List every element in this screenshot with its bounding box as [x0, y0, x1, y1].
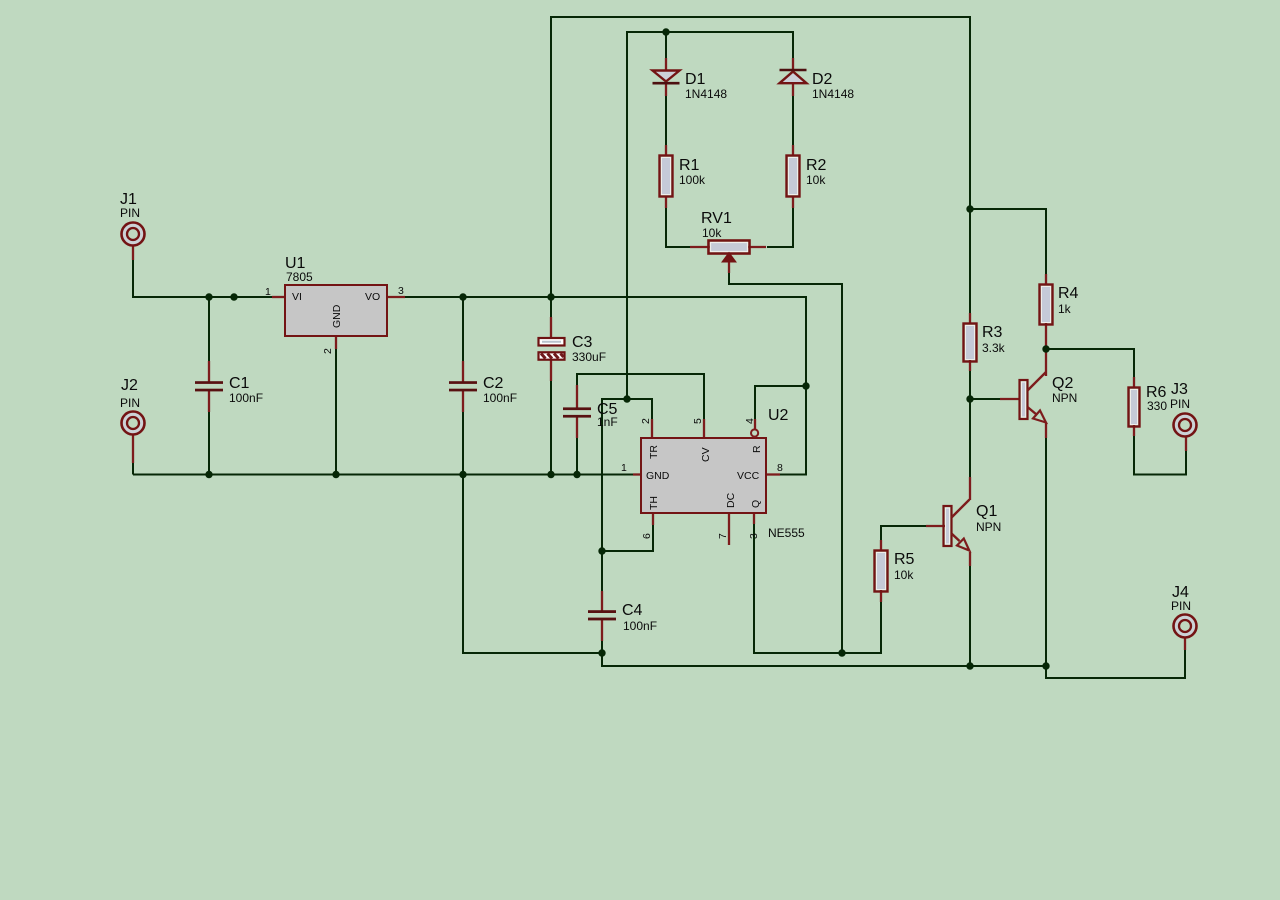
wire TR node — [602, 399, 652, 551]
pin stub 555 CV pin5 — [703, 419, 705, 438]
wire top supply loop — [551, 17, 970, 297]
node gnd Q2 emitter / J4 — [1042, 662, 1049, 669]
svg-text:1: 1 — [621, 462, 627, 474]
pin stub R1 bottom — [665, 196, 667, 208]
node rail C3 — [547, 293, 554, 300]
svg-text:R5: R5 — [894, 551, 915, 568]
svg-text:TH: TH — [648, 496, 660, 510]
pin stub RV1 right — [748, 246, 766, 248]
connector J1 — [120, 191, 145, 246]
svg-text:R3: R3 — [982, 324, 1003, 341]
pin stub C5 bottom — [576, 416, 578, 438]
pin stub R4 bottom — [1045, 323, 1047, 350]
pin stub J4 — [1184, 637, 1186, 650]
pin stub Q2 base — [1000, 398, 1019, 400]
connector J3 — [1170, 381, 1197, 437]
svg-text:C2: C2 — [483, 375, 504, 392]
node C4 bottom — [598, 649, 605, 656]
resistor R6 — [1129, 384, 1168, 427]
node R4 bottom / Q2 collector — [1042, 345, 1049, 352]
capacitor C1 — [195, 375, 263, 405]
svg-text:100nF: 100nF — [229, 391, 263, 405]
wire C1 bottom — [208, 411, 210, 475]
svg-text:1N4148: 1N4148 — [812, 87, 854, 101]
svg-text:GND: GND — [331, 304, 343, 328]
pin stub D1 cathode — [665, 84, 667, 96]
wire 555 output pin 3 — [754, 523, 881, 653]
pin stub D1 anode — [665, 58, 667, 70]
pin stub R2 top — [792, 145, 794, 156]
svg-text:6: 6 — [641, 533, 653, 539]
node rail C1 — [205, 293, 212, 300]
svg-text:10k: 10k — [702, 226, 722, 240]
red pin stubs — [133, 58, 1186, 650]
svg-text:1: 1 — [265, 286, 271, 298]
potentiometer RV1 — [701, 210, 750, 262]
connector J4 — [1171, 584, 1197, 638]
svg-text:NPN: NPN — [976, 520, 1001, 534]
node rail C2 — [459, 293, 466, 300]
wire Q2 emitter down — [1045, 437, 1047, 666]
capacitor C3 electrolytic — [539, 334, 607, 364]
pin stub C1 bottom — [208, 390, 210, 412]
svg-text:330uF: 330uF — [572, 350, 606, 364]
node R3 bottom / Q2 base — [966, 395, 973, 402]
pin stub D2 cathode — [792, 58, 794, 70]
wire C1 top — [208, 297, 210, 362]
node gnd C2 — [459, 471, 466, 478]
wire bottom ground rail — [602, 653, 1046, 666]
svg-text:330: 330 — [1147, 399, 1167, 413]
pin stub C4 bottom — [601, 619, 603, 641]
pin stub U1 pin1 — [272, 296, 285, 298]
svg-text:100nF: 100nF — [483, 391, 517, 405]
svg-text:1N4148: 1N4148 — [685, 87, 727, 101]
svg-text:Q: Q — [750, 500, 762, 508]
svg-text:C3: C3 — [572, 334, 593, 351]
resistor R1 — [660, 156, 707, 197]
pin stub R3 bottom — [969, 360, 971, 371]
wire Q2 base — [970, 398, 1001, 400]
wire Q1 collector up — [969, 399, 971, 480]
svg-text:PIN: PIN — [120, 206, 140, 220]
pin stub R5 top — [880, 540, 882, 551]
pin stub C4 top — [601, 591, 603, 612]
pin stub R1 top — [665, 145, 667, 156]
node gnd Q1 emitter — [966, 662, 973, 669]
node TR — [623, 395, 630, 402]
wire D1 top stub — [665, 32, 667, 60]
svg-text:PIN: PIN — [1170, 397, 1190, 411]
svg-text:RV1: RV1 — [701, 210, 732, 227]
svg-text:3.3k: 3.3k — [982, 341, 1006, 355]
svg-text:8: 8 — [777, 462, 783, 474]
svg-text:NPN: NPN — [1052, 391, 1077, 405]
pin stub J2 — [132, 434, 134, 463]
pin stub Q1 emitter — [969, 552, 971, 566]
wire R1 to RV1 left — [666, 207, 691, 247]
svg-text:7: 7 — [717, 533, 729, 539]
svg-text:Q2: Q2 — [1052, 375, 1073, 392]
pin stub 555 DC pin7 dangling — [728, 513, 730, 545]
regulator U1 7805 body — [265, 255, 404, 354]
svg-text:10k: 10k — [806, 173, 826, 187]
connector J2 — [120, 377, 145, 435]
diode D2 1N4148 — [780, 70, 855, 101]
pin stub 555 R pin4 — [754, 419, 756, 430]
wire C3 bottom — [550, 380, 552, 475]
svg-text:D1: D1 — [685, 71, 706, 88]
wire R4 bottom node to R6 — [1046, 349, 1134, 378]
node gnd C5 — [573, 471, 580, 478]
svg-text:4: 4 — [744, 418, 756, 424]
pin stub R6 top — [1133, 377, 1135, 388]
svg-text:1k: 1k — [1058, 302, 1072, 316]
pin stub U1 pin3 — [388, 296, 405, 298]
wire R3 column top — [969, 209, 971, 314]
wire C2 node down to C4 bottom — [463, 475, 602, 654]
wire reset jog to pin 4 — [755, 386, 806, 420]
svg-text:100k: 100k — [679, 173, 706, 187]
svg-text:D2: D2 — [812, 71, 833, 88]
svg-text:7805: 7805 — [286, 270, 313, 284]
wire rail +V from U1 VO to VCC corner — [405, 297, 806, 386]
wire R2 to RV1 right — [767, 207, 793, 247]
svg-text:C1: C1 — [229, 375, 250, 392]
svg-text:1nF: 1nF — [597, 415, 618, 429]
pin stub R4 top — [1045, 274, 1047, 285]
pin stub Q1 base — [926, 525, 945, 527]
pin stub Q2 collector — [1045, 349, 1047, 376]
wire J1 to U1 pin 1 — [133, 258, 273, 297]
pin stub 555 TH pin6 — [652, 513, 654, 525]
wire TH jog to pin 6 — [602, 524, 653, 551]
capacitor C2 — [449, 375, 517, 405]
svg-text:R: R — [751, 445, 763, 453]
wire ground rail left — [133, 474, 634, 476]
pin stub D2 anode — [792, 84, 794, 96]
svg-text:Q1: Q1 — [976, 503, 997, 520]
node diode bar / D1 — [662, 28, 669, 35]
svg-text:2: 2 — [322, 348, 334, 354]
resistor R4 — [1040, 285, 1079, 325]
node gnd C1 — [205, 471, 212, 478]
svg-text:R2: R2 — [806, 157, 827, 174]
wire R5 top to Q1 base — [881, 526, 927, 541]
wire U1 pin 2 down — [335, 347, 337, 475]
wire RV1 wiper to output node — [729, 272, 842, 653]
pin stub R5 bottom — [880, 590, 882, 602]
pin stub 555 GND pin1 — [633, 473, 641, 475]
node gnd C3 — [547, 471, 554, 478]
svg-text:NE555: NE555 — [768, 526, 805, 540]
svg-text:TR: TR — [648, 445, 660, 459]
svg-text:100nF: 100nF — [623, 619, 657, 633]
svg-text:3: 3 — [398, 285, 404, 297]
pin stub 555 TR pin2 — [651, 419, 653, 438]
svg-text:R1: R1 — [679, 157, 700, 174]
svg-text:J3: J3 — [1171, 381, 1188, 398]
svg-text:VCC: VCC — [737, 470, 760, 482]
svg-text:CV: CV — [700, 447, 712, 462]
pin stub C3 top — [550, 317, 552, 338]
svg-text:VI: VI — [292, 291, 302, 303]
svg-text:PIN: PIN — [120, 396, 140, 410]
wire J4 jog — [1046, 648, 1185, 678]
transistor Q1 NPN — [944, 500, 1002, 551]
svg-text:R4: R4 — [1058, 285, 1079, 302]
pin stub J3 — [1185, 437, 1187, 451]
svg-text:VO: VO — [365, 291, 380, 303]
node TH — [598, 547, 605, 554]
wire R6 bottom to J3 — [1134, 435, 1186, 475]
pin stub R2 bottom — [792, 196, 794, 208]
capacitor C5 — [563, 401, 618, 429]
wire C3 top — [550, 297, 552, 318]
capacitor C4 — [588, 602, 657, 633]
wire D2 to R2 — [792, 95, 794, 146]
node output / RV1 wiper — [838, 649, 845, 656]
node VCC/reset — [802, 382, 809, 389]
pin stub C3 bottom — [550, 360, 552, 381]
pin stub C1 top — [208, 361, 210, 382]
pin stub J1 — [132, 246, 134, 260]
resistor R3 — [964, 324, 1006, 362]
pin stub 555 Q pin3 — [753, 513, 755, 524]
svg-text:5: 5 — [692, 418, 704, 424]
pin stub C2 bottom — [462, 390, 464, 412]
svg-text:C4: C4 — [622, 602, 643, 619]
wire J2 down — [132, 462, 134, 475]
pin stub C2 top — [462, 361, 464, 382]
diode D1 1N4148 — [653, 71, 728, 102]
pin stub RV1 wiper — [728, 258, 730, 273]
node R3 top — [966, 205, 973, 212]
wire C4 bottom — [601, 640, 603, 653]
wire TH node down to C4 — [601, 551, 603, 592]
timer U2 NE555 body — [621, 407, 805, 540]
svg-text:PIN: PIN — [1171, 599, 1191, 613]
svg-text:10k: 10k — [894, 568, 914, 582]
pin stub RV1 left — [690, 246, 710, 248]
node rail extra — [230, 293, 237, 300]
svg-text:J2: J2 — [121, 377, 138, 394]
pin stub R3 top — [969, 313, 971, 324]
svg-text:2: 2 — [640, 418, 652, 424]
transistor Q2 NPN — [1020, 372, 1078, 423]
svg-text:U2: U2 — [768, 407, 789, 424]
wire Q1 emitter down — [969, 564, 971, 666]
pin stub R6 bottom — [1133, 425, 1135, 436]
wire C5 bottom — [576, 437, 578, 475]
pin stub C5 top — [576, 385, 578, 409]
wire R3 node to R4 top — [970, 209, 1046, 275]
wire VCC jog to pin 8 — [779, 386, 806, 475]
pin stub Q2 emitter — [1045, 423, 1047, 438]
resistor R2 — [787, 156, 827, 197]
resistor R5 — [875, 551, 915, 592]
wire C2 top — [462, 297, 464, 362]
pin stub Q1 collector — [969, 477, 971, 500]
wire R3 column bottom — [969, 370, 971, 399]
svg-text:GND: GND — [646, 470, 670, 482]
svg-text:DC: DC — [725, 492, 737, 508]
wire C5 to CV pin 5 — [577, 374, 704, 420]
pin stub U1 pin2 — [335, 336, 337, 349]
node gnd U1 pin2 — [332, 471, 339, 478]
wire diode bar down to TR node — [626, 32, 628, 399]
wire C2 bottom — [462, 411, 464, 475]
svg-text:3: 3 — [748, 533, 760, 539]
wire D1 to R1 — [665, 95, 667, 146]
pin stub 555 VCC pin8 — [766, 473, 780, 475]
wire diode top bar — [627, 32, 793, 399]
